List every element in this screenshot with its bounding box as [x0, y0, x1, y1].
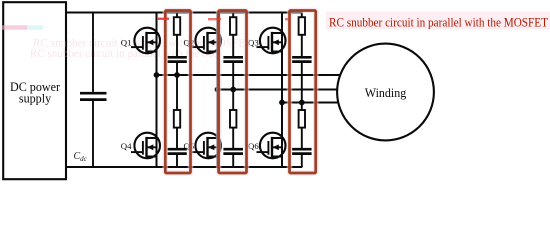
MOSFET Q2: [192, 28, 221, 54]
resistor Rs3 (upper snubber 3): [299, 17, 305, 35]
wire snubber branch 3: [301, 13, 303, 168]
annotation highlight box snubber 1: [165, 11, 190, 174]
node phase C snubber junction: [299, 100, 305, 106]
wire snubber branch 1: [176, 13, 178, 168]
wire positive DC bus (top): [66, 11, 303, 13]
resistor Rs4 (lower snubber 1): [174, 110, 180, 128]
MOSFET Q4: [131, 133, 160, 159]
wire leg B vertical rail: [217, 13, 219, 168]
svg-text:Q4: Q4: [121, 141, 132, 151]
ghost artifact red dash 1: [157, 18, 169, 20]
capacitor Cs3 (upper snubber 3): [292, 57, 312, 61]
svg-text:Q3: Q3: [248, 38, 259, 48]
wire negative DC bus (bottom): [66, 166, 303, 168]
ghost artifact pink bar top-left: [2, 25, 43, 29]
annotation text halo: [326, 12, 550, 30]
annotation highlight box snubber 2: [219, 11, 247, 174]
node phase B leg junction: [215, 87, 221, 93]
MOSFET Q3: [257, 28, 286, 54]
ghost artifact red dash 2: [208, 18, 221, 20]
resistor Rs6 (lower snubber 3): [299, 110, 305, 128]
node phase C leg junction: [279, 100, 285, 106]
svg-text:RC snubber circuit in parallel: RC snubber circuit in parallel with the …: [329, 16, 548, 30]
node phase B snubber junction: [230, 87, 236, 93]
DC power supply box: [3, 2, 66, 179]
resistor Rs5 (lower snubber 2): [230, 110, 236, 128]
wire leg C vertical rail: [281, 13, 283, 168]
svg-text:Winding: Winding: [365, 86, 407, 100]
capacitor Cs6 (lower snubber 3): [292, 149, 312, 153]
capacitor Cs4 (lower snubber 1): [167, 149, 187, 153]
wire phase A output: [157, 74, 341, 76]
MOSFET Q6: [257, 133, 286, 159]
wire phase C output: [282, 102, 340, 104]
wire snubber branch 2: [232, 13, 234, 168]
svg-text:supply: supply: [19, 91, 51, 105]
svg-text:Q1: Q1: [121, 38, 132, 48]
annotation highlight box snubber 3: [290, 11, 316, 174]
node phase A leg junction: [154, 72, 160, 78]
winding (motor) M: [337, 44, 434, 141]
wire phase B output: [218, 89, 341, 91]
capacitor Cdc: [80, 13, 107, 168]
capacitor Cs2 (upper snubber 2): [223, 57, 243, 61]
capacitor Cs1 (upper snubber 1): [167, 57, 187, 61]
svg-text:Q6: Q6: [248, 141, 259, 151]
MOSFET Q5: [192, 133, 221, 159]
capacitor Cs5 (lower snubber 2): [223, 149, 243, 153]
resistor Rs1 (upper snubber 1): [174, 17, 180, 35]
wire leg A vertical rail: [156, 13, 158, 168]
resistor Rs2 (upper snubber 2): [230, 17, 236, 35]
node phase A snubber junction: [174, 72, 180, 78]
ghost artifact red dash 3: [285, 18, 291, 20]
MOSFET Q1: [131, 28, 160, 54]
